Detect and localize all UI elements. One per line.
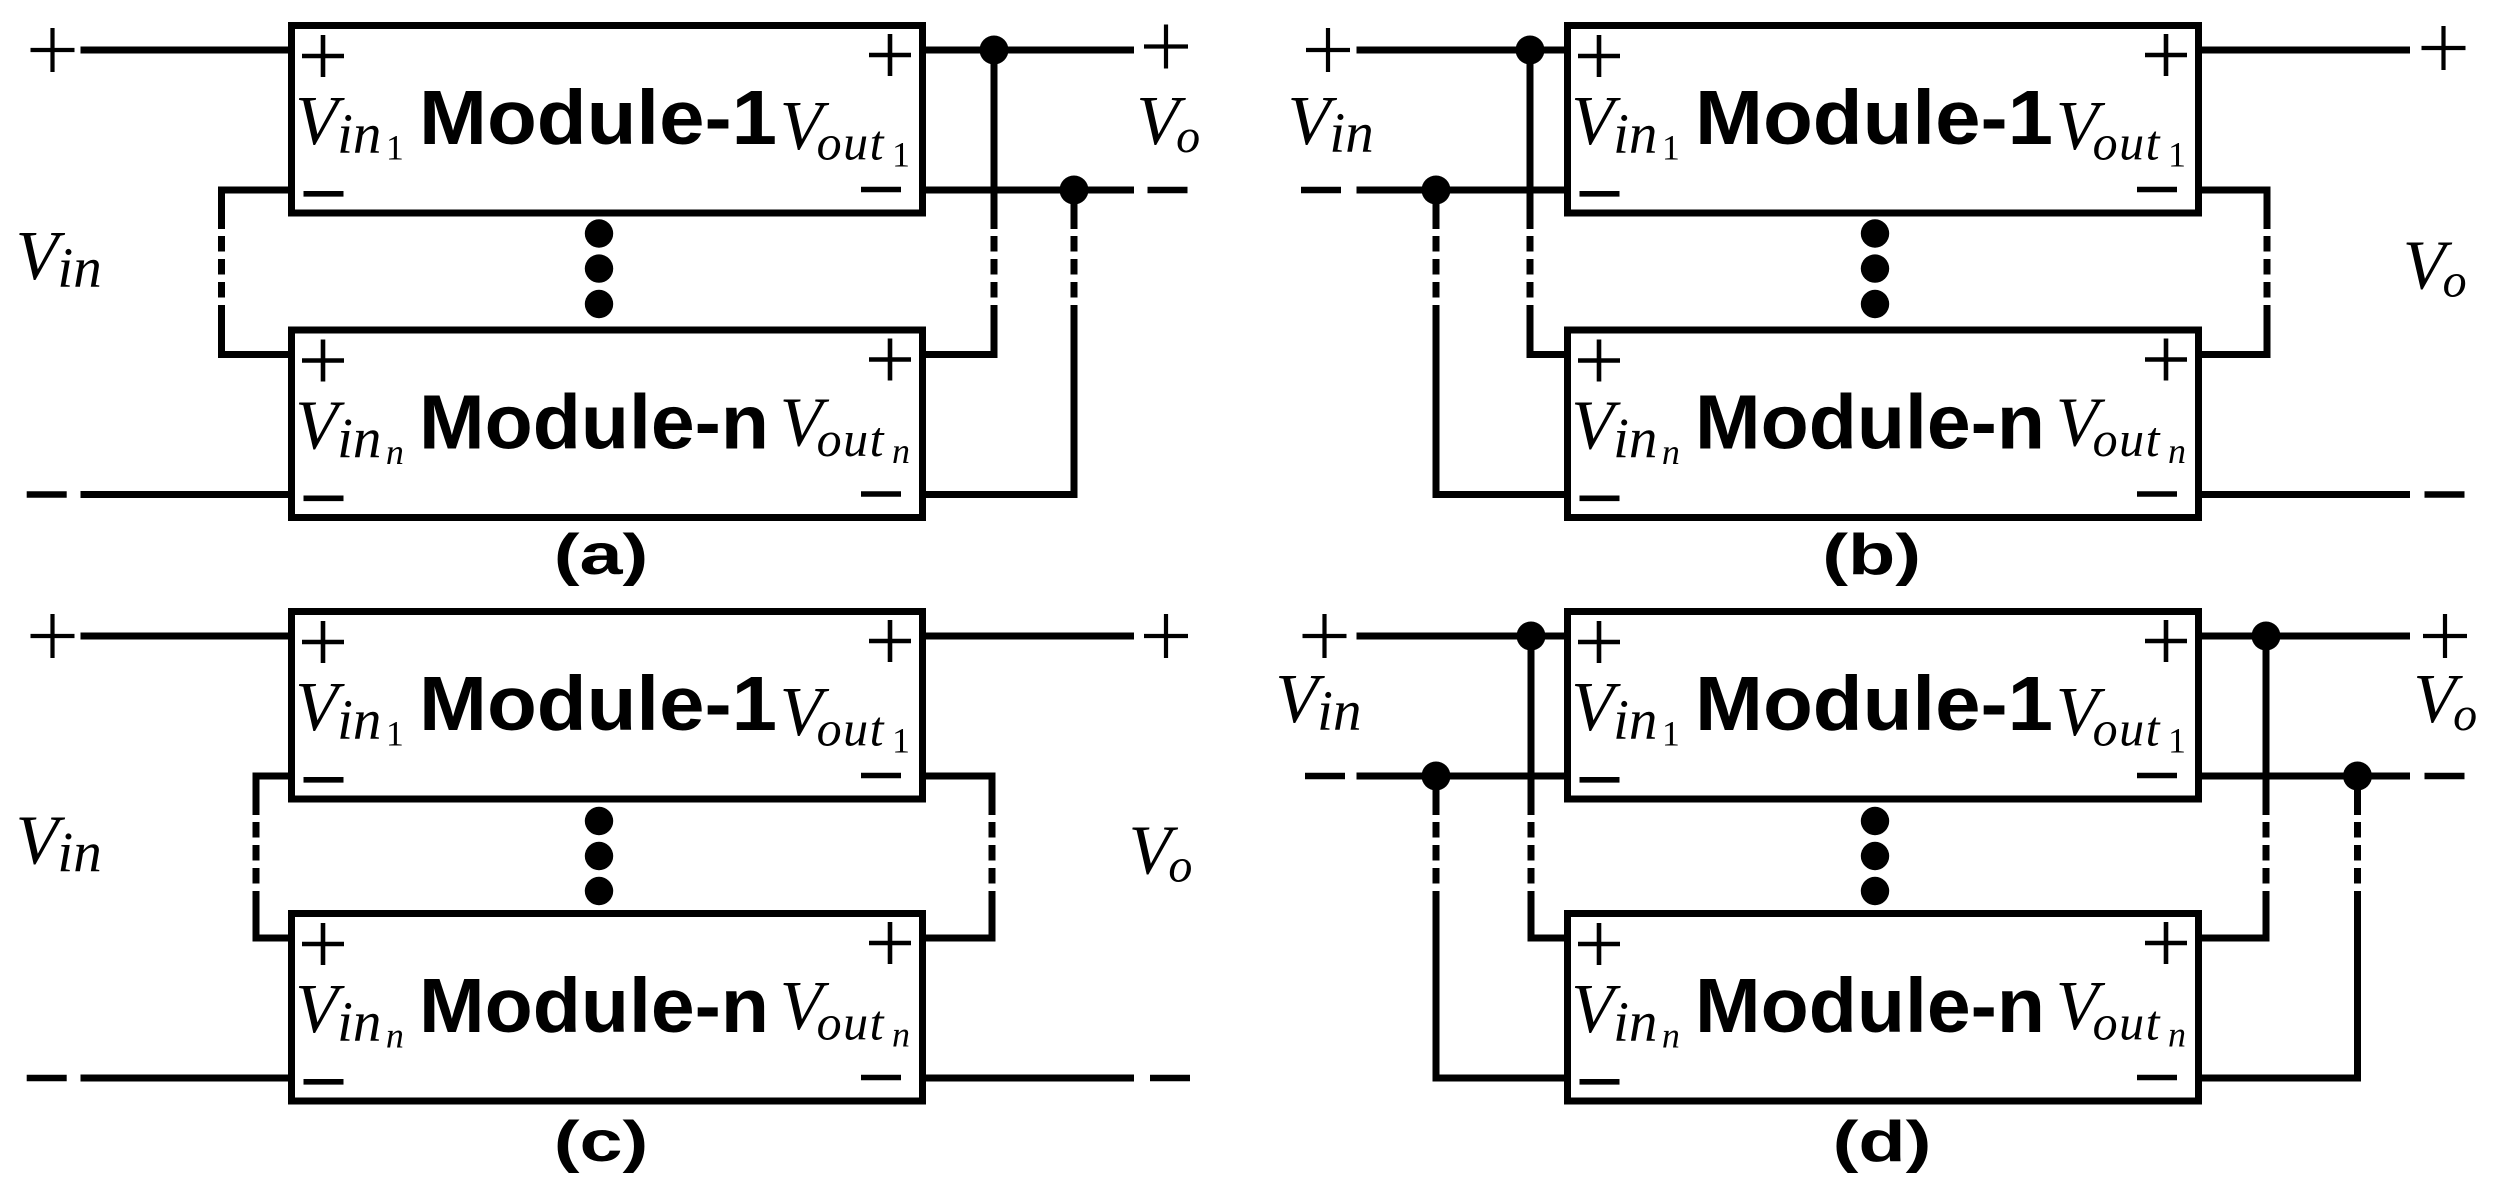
pin - (output) of Un (c) bbox=[861, 1075, 901, 1081]
wire Module-n out+ riser (a) bbox=[991, 50, 998, 358]
wire Module-n out+ riser (d) bbox=[2263, 636, 2270, 942]
terminal - of Vo (a) bbox=[1148, 187, 1188, 193]
pin - (input) of U1 (c) bbox=[304, 777, 344, 783]
ellipsis dots (more modules) (b) bbox=[1861, 219, 1889, 318]
svg-text:Module-n: Module-n bbox=[1695, 380, 2045, 466]
wire Vin- bus (d) bbox=[1357, 773, 1568, 780]
wire input+ drop to Module-n (b) bbox=[1527, 50, 1534, 358]
pin + (output) of Un (c) bbox=[869, 922, 911, 964]
wire drop to Module-n in- (d) bbox=[1436, 1075, 1568, 1082]
pin - (input) of Un (c) bbox=[304, 1079, 344, 1085]
caption (c) bbox=[554, 1109, 649, 1173]
wire Module-1 in- to series link (a) bbox=[222, 187, 292, 194]
svg-text:(c): (c) bbox=[554, 1109, 649, 1173]
wire Vin+ to Module-1 input+ (a) bbox=[81, 47, 292, 54]
pin + (input) of Un (c) bbox=[302, 923, 344, 965]
wire Vin- to Module-n in- (c) bbox=[81, 1075, 292, 1082]
terminal + of Vo (c) bbox=[1144, 614, 1188, 658]
svg-text:Voutn: Voutn bbox=[780, 385, 910, 472]
svg-text:Vin: Vin bbox=[1288, 83, 1374, 165]
wire Vo+ bus (d) bbox=[2199, 633, 2411, 640]
wire riser to Module-n out- (a) bbox=[923, 491, 1075, 498]
svg-text:(a): (a) bbox=[554, 522, 649, 586]
svg-text:Voutn: Voutn bbox=[2056, 385, 2186, 472]
svg-text:Vin: Vin bbox=[1275, 661, 1361, 743]
svg-text:(b): (b) bbox=[1822, 522, 1921, 586]
svg-text:Vin1: Vin1 bbox=[1571, 83, 1680, 168]
svg-text:Vinn: Vinn bbox=[295, 971, 404, 1056]
wire input- drop to Module-n (d) bbox=[1433, 776, 1440, 1082]
wire Vin- to Module-n input- (a) bbox=[81, 491, 292, 498]
pin - (input) of U1 (b) bbox=[1580, 191, 1620, 197]
svg-text:Vo: Vo bbox=[2403, 228, 2467, 308]
pin + (output) of U1 (c) bbox=[869, 620, 911, 662]
svg-text:Module-n: Module-n bbox=[419, 963, 769, 1049]
pin + (output) of Un (d) bbox=[2145, 922, 2187, 964]
terminal - of Vin (d) bbox=[1305, 773, 1345, 779]
pin - (input) of U1 (d) bbox=[1580, 777, 1620, 783]
wire series output link vertical (c) bbox=[989, 773, 996, 942]
terminal + of Vin (d) bbox=[1303, 614, 1347, 658]
terminal + of Vo (a) bbox=[1144, 25, 1188, 69]
node output+ junction (a) bbox=[980, 36, 1009, 65]
wire series link to Module-n in+ (c) bbox=[256, 935, 292, 942]
wire series link to Module-n out+ (c) bbox=[923, 935, 993, 942]
module Module-1 box U1 (d) bbox=[1568, 612, 2199, 800]
terminal + of Vo (b) bbox=[2422, 26, 2466, 70]
wire Vin+ bus (d) bbox=[1357, 633, 1568, 640]
terminal - of Vin (c) bbox=[27, 1075, 67, 1081]
svg-text:Vinn: Vinn bbox=[295, 388, 404, 473]
pin + (input) of U1 (b) bbox=[1578, 35, 1620, 77]
terminal + of Vin (b) bbox=[1306, 28, 1350, 72]
wire Module-1 out- to series link (c) bbox=[923, 773, 993, 780]
svg-text:(d): (d) bbox=[1833, 1109, 1932, 1173]
caption (b) bbox=[1822, 522, 1921, 586]
pin - (output) of U1 (a) bbox=[861, 187, 901, 193]
svg-text:Vout1: Vout1 bbox=[2056, 88, 2186, 175]
svg-text:Vout1: Vout1 bbox=[780, 674, 910, 761]
wire Vin+ bus (b) bbox=[1357, 47, 1568, 54]
pin + (input) of U1 (a) bbox=[302, 35, 344, 77]
wire drop to Module-n in+ (b) bbox=[1530, 351, 1568, 358]
wire input- drop to Module-n (b) bbox=[1433, 190, 1440, 498]
pin - (output) of Un (d) bbox=[2137, 1075, 2177, 1081]
terminal + of Vin (a) bbox=[31, 28, 75, 72]
wire Vin+ to Module-1 in+ (c) bbox=[81, 633, 292, 640]
module Module-n box Un (a) bbox=[292, 330, 923, 518]
terminal - of Vo (c) bbox=[1150, 1075, 1190, 1081]
svg-text:Vinn: Vinn bbox=[1571, 971, 1680, 1056]
wire series input link vertical (c) bbox=[253, 773, 260, 942]
ellipsis dots (more modules) (a) bbox=[585, 219, 613, 318]
pin - (output) of U1 (c) bbox=[861, 773, 901, 779]
node output+ junction (d) bbox=[2252, 622, 2281, 651]
module Module-1 box U1 (a) bbox=[292, 26, 923, 214]
module Module-n box Un (d) bbox=[1568, 914, 2199, 1102]
wire input+ drop to Module-n (d) bbox=[1528, 636, 1535, 942]
ellipsis dots (more modules) (c) bbox=[585, 807, 613, 905]
pin - (input) of Un (b) bbox=[1580, 495, 1620, 501]
svg-text:Vin: Vin bbox=[16, 803, 102, 885]
svg-text:Module-1: Module-1 bbox=[419, 661, 777, 747]
pin - (input) of U1 (a) bbox=[304, 191, 344, 197]
module Module-1 box U1 (b) bbox=[1568, 26, 2199, 214]
svg-text:Module-1: Module-1 bbox=[1695, 75, 2053, 161]
node input- junction (b) bbox=[1422, 176, 1451, 205]
wire riser to Module-n out- (d) bbox=[2199, 1075, 2358, 1082]
wire Vo- (b) bbox=[2199, 491, 2411, 498]
terminal + of Vin (c) bbox=[31, 614, 75, 658]
wire series link to Module-n out+ (b) bbox=[2199, 351, 2268, 358]
pin + (input) of U1 (c) bbox=[302, 621, 344, 663]
module Module-n box Un (c) bbox=[292, 914, 923, 1102]
pin + (input) of Un (b) bbox=[1578, 340, 1620, 382]
pin - (input) of Un (a) bbox=[304, 495, 344, 501]
wire series output link vertical (b) bbox=[2264, 187, 2271, 359]
pin + (output) of Un (b) bbox=[2145, 339, 2187, 381]
node input+ junction (d) bbox=[1517, 622, 1546, 651]
wire riser to Module-n out+ (d) bbox=[2199, 935, 2267, 942]
pin - (output) of U1 (d) bbox=[2137, 773, 2177, 779]
svg-text:Module-1: Module-1 bbox=[419, 75, 777, 161]
pin - (output) of Un (b) bbox=[2137, 491, 2177, 497]
wire drop to Module-n in- (b) bbox=[1436, 491, 1568, 498]
ellipsis dots (more modules) (d) bbox=[1861, 807, 1889, 905]
wire riser to Module-n out+ (a) bbox=[923, 351, 995, 358]
svg-text:Vin1: Vin1 bbox=[295, 669, 404, 754]
pin + (input) of U1 (d) bbox=[1578, 621, 1620, 663]
wire Vo- (c) bbox=[923, 1075, 1135, 1082]
terminal - of Vin (b) bbox=[1301, 187, 1341, 193]
svg-text:Vout1: Vout1 bbox=[780, 88, 910, 175]
svg-text:Vin1: Vin1 bbox=[1571, 669, 1680, 754]
wire output+ bus (a) bbox=[923, 47, 1135, 54]
pin + (input) of Un (d) bbox=[1578, 923, 1620, 965]
node output- junction (a) bbox=[1060, 176, 1089, 205]
svg-text:Vo: Vo bbox=[2413, 661, 2477, 741]
wire series link to Module-n in+ (a) bbox=[222, 351, 292, 358]
wire Module-n out- riser (d) bbox=[2354, 776, 2361, 1082]
wire Vo+ (b) bbox=[2199, 47, 2411, 54]
svg-text:Module-n: Module-n bbox=[419, 380, 769, 466]
pin + (output) of U1 (b) bbox=[2145, 34, 2187, 76]
wire Module-1 out- to series link (b) bbox=[2199, 187, 2268, 194]
terminal - of Vo (b) bbox=[2425, 491, 2465, 497]
wire Vin- bus (b) bbox=[1357, 187, 1568, 194]
wire output- bus (a) bbox=[923, 187, 1135, 194]
svg-text:Vinn: Vinn bbox=[1571, 388, 1680, 473]
module Module-1 box U1 (c) bbox=[292, 612, 923, 800]
pin - (output) of Un (a) bbox=[861, 491, 901, 497]
svg-text:Module-1: Module-1 bbox=[1695, 661, 2053, 747]
caption (a) bbox=[554, 522, 649, 586]
terminal + of Vo (d) bbox=[2423, 614, 2467, 658]
svg-text:Vout1: Vout1 bbox=[2056, 674, 2186, 761]
svg-text:Vin1: Vin1 bbox=[295, 83, 404, 168]
svg-text:Voutn: Voutn bbox=[2056, 968, 2186, 1055]
node input- junction (d) bbox=[1422, 762, 1451, 791]
wire Vo- bus (d) bbox=[2199, 773, 2411, 780]
terminal - of Vo (d) bbox=[2425, 773, 2465, 779]
pin - (input) of Un (d) bbox=[1580, 1079, 1620, 1085]
pin + (output) of Un (a) bbox=[869, 339, 911, 381]
wire Vo+ (c) bbox=[923, 633, 1135, 640]
svg-text:Module-n: Module-n bbox=[1695, 963, 2045, 1049]
svg-text:Vin: Vin bbox=[16, 218, 102, 300]
module Module-n box Un (b) bbox=[1568, 330, 2199, 518]
svg-text:Voutn: Voutn bbox=[780, 968, 910, 1055]
wire series input link vertical (a) bbox=[218, 187, 225, 359]
wire Module-n out- riser (a) bbox=[1071, 190, 1078, 498]
node output- junction (d) bbox=[2343, 762, 2372, 791]
wire drop to Module-n in+ (d) bbox=[1531, 935, 1568, 942]
pin - (output) of U1 (b) bbox=[2137, 187, 2177, 193]
node input+ junction (b) bbox=[1516, 36, 1545, 65]
pin + (input) of Un (a) bbox=[302, 340, 344, 382]
pin + (output) of U1 (d) bbox=[2145, 620, 2187, 662]
terminal - of Vin (a) bbox=[27, 491, 67, 497]
svg-text:Vo: Vo bbox=[1129, 813, 1193, 893]
svg-text:Vo: Vo bbox=[1136, 83, 1200, 163]
caption (d) bbox=[1833, 1109, 1932, 1173]
wire Module-1 in- to series link (c) bbox=[256, 773, 292, 780]
pin + (output) of U1 (a) bbox=[869, 34, 911, 76]
